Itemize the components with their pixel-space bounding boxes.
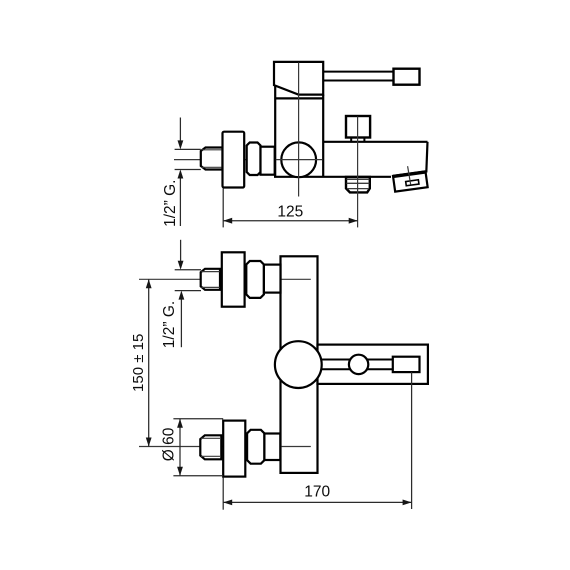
- lower flange: [223, 421, 245, 477]
- upper hex nut: [246, 261, 264, 298]
- front thread dim lower arrow: [180, 293, 182, 348]
- thread dim upper arrow: [179, 118, 181, 148]
- svg-text:170: 170: [304, 484, 330, 501]
- lower hex nut: [247, 430, 264, 464]
- diverter centerline: [357, 117, 359, 228]
- svg-text:Ø 60: Ø 60: [161, 427, 178, 461]
- handle cap (lever base): [274, 62, 323, 95]
- dim 125 extension line: [222, 189, 224, 228]
- dim D60 ext lines: [173, 419, 223, 476]
- wall flange (side view): [223, 132, 245, 188]
- diverter knob: [346, 116, 370, 138]
- svg-text:150 ± 15: 150 ± 15: [130, 334, 147, 392]
- diverter circle front view: [349, 355, 368, 374]
- diverter stem: [351, 138, 364, 142]
- front thread dim ext lines: [175, 270, 201, 291]
- spout horizontal run: [323, 142, 427, 173]
- thread dim lower arrow: [179, 172, 181, 227]
- upper flange: [222, 252, 245, 306]
- cartridge circle: [281, 142, 316, 177]
- dim 170 left extension: [222, 478, 224, 510]
- lever grip: [394, 69, 420, 85]
- svg-text:1/2” G.: 1/2” G.: [162, 180, 179, 227]
- tail thread minor lines: [202, 150, 223, 168]
- dim 170 line: [223, 501, 411, 503]
- aerator under spout: [346, 177, 370, 192]
- tilted spout end piece: [393, 171, 428, 191]
- dim 170 right extension: [411, 372, 413, 509]
- aerator thread lines: [347, 179, 370, 188]
- dim D60 line: [179, 419, 181, 476]
- inner insert of end piece: [406, 180, 419, 186]
- upper tail thread lines: [201, 272, 219, 288]
- wall union threaded tail (side view): [201, 148, 223, 170]
- inlet centerline (side view): [174, 159, 323, 161]
- front thread dim upper arrow: [180, 240, 182, 268]
- upper inlet centerline: [139, 278, 311, 280]
- svg-text:125: 125: [277, 204, 303, 221]
- lower inlet centerline: [139, 446, 311, 448]
- lever bar: [323, 72, 394, 81]
- body column front view: [281, 256, 318, 473]
- end piece centerline: [408, 166, 411, 185]
- handle boss circle front view: [275, 341, 322, 388]
- upper step bushing: [264, 265, 281, 293]
- lower tail thread lines: [201, 438, 221, 456]
- svg-text:1/2” G.: 1/2” G.: [161, 301, 178, 348]
- lever bar front view: [318, 360, 393, 370]
- grip front view: [393, 357, 420, 372]
- union hex nut (side view): [247, 143, 261, 176]
- lower step bushing: [264, 434, 280, 461]
- lower threaded tail: [200, 435, 221, 459]
- dim 150 +/- 15 line: [148, 279, 150, 446]
- thread dim extension lines (side view): [175, 149, 201, 169]
- dim 125 line: [223, 220, 358, 222]
- lever housing (front view): [318, 345, 428, 384]
- step bushing (side view): [261, 147, 275, 175]
- upper threaded tail: [201, 269, 220, 290]
- body column side view: [274, 86, 391, 177]
- body centerline (side view): [298, 63, 300, 197]
